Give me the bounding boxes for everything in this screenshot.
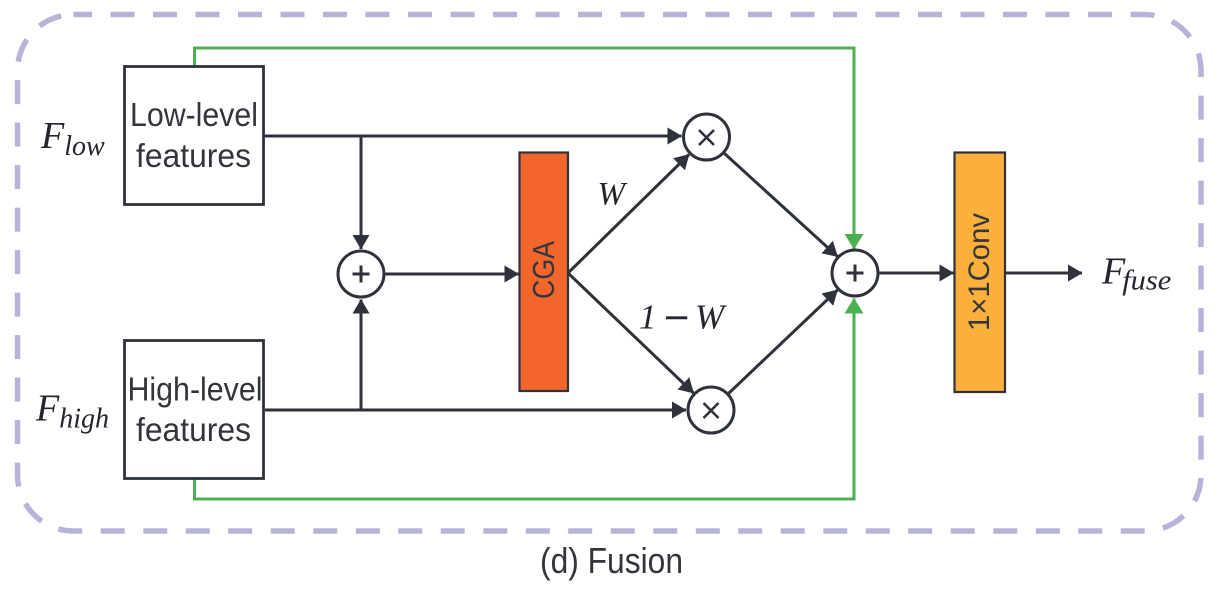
- svg-text:Fhigh: Fhigh: [35, 388, 109, 435]
- svg-text:1×1Conv: 1×1Conv: [963, 213, 996, 331]
- svg-text:features: features: [136, 411, 251, 448]
- svg-text:1: 1: [639, 298, 657, 337]
- svg-text:features: features: [136, 137, 251, 174]
- svg-text:CGA: CGA: [526, 241, 561, 299]
- svg-text:High-level: High-level: [128, 371, 263, 408]
- svg-text:W: W: [695, 298, 727, 337]
- svg-text:W: W: [598, 177, 628, 213]
- svg-text:Ffuse: Ffuse: [1101, 251, 1171, 297]
- svg-text:(d) Fusion: (d) Fusion: [540, 540, 683, 581]
- svg-text:Flow: Flow: [40, 115, 105, 162]
- svg-text:Low-level: Low-level: [130, 96, 258, 133]
